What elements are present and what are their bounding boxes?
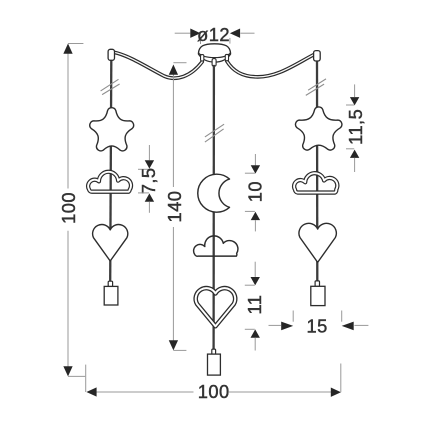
svg-text:11,5: 11,5 <box>345 109 366 145</box>
svg-text:11: 11 <box>244 295 265 315</box>
svg-text:140: 140 <box>164 191 185 223</box>
svg-text:ø12: ø12 <box>197 24 230 45</box>
svg-text:10: 10 <box>244 181 265 202</box>
svg-text:7,5: 7,5 <box>138 168 159 195</box>
svg-text:100: 100 <box>198 381 230 402</box>
svg-text:100: 100 <box>58 192 79 224</box>
svg-text:15: 15 <box>306 316 327 337</box>
